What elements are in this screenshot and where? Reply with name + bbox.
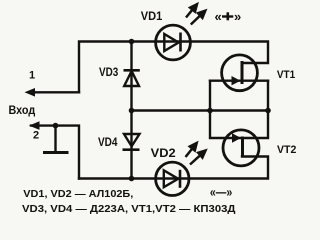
svg-text:VT1: VT1 <box>277 69 295 81</box>
svg-text:VD1: VD1 <box>141 9 163 23</box>
svg-text:VD2: VD2 <box>151 146 176 160</box>
LED VD2 emission arrows <box>186 143 206 165</box>
svg-text:VD4: VD4 <box>98 135 118 149</box>
wire middle rail <box>132 109 269 111</box>
wire terminal 1 lead <box>30 91 79 93</box>
wire VT1 gate-source line <box>210 79 268 81</box>
svg-text:VD3: VD3 <box>99 65 119 79</box>
wire right vertical VT1 source to VT2 drain <box>243 81 268 138</box>
wire gate riser <box>210 81 240 138</box>
transistor VT2 <box>223 130 259 166</box>
ground chassis bar <box>43 151 69 154</box>
svg-text:VT2: VT2 <box>277 144 296 156</box>
svg-text:VD3, VD4 — Д223А, VT1,VT2 — КП: VD3, VD4 — Д223А, VT1,VT2 — КП303Д <box>22 203 236 215</box>
svg-text:«—»: «—» <box>210 185 232 200</box>
transistor VT1 <box>222 55 258 91</box>
wire VD4 branch <box>130 111 132 179</box>
svg-text:«: « <box>215 9 222 24</box>
diode VD3 <box>124 70 140 86</box>
svg-text:1: 1 <box>29 69 35 81</box>
node B middle rail left junction <box>129 108 135 114</box>
wire VD3 branch <box>130 42 132 111</box>
terminal 1 arrow <box>25 88 36 97</box>
svg-text:Вход: Вход <box>9 105 36 117</box>
node A top rail junction <box>129 39 135 45</box>
node D middle rail right junction <box>265 108 271 114</box>
node F chassis junction <box>53 123 59 129</box>
wire chassis stub <box>54 126 56 152</box>
wire top rail <box>79 42 268 93</box>
LED VD1 <box>156 25 191 60</box>
terminal 2 arrow <box>29 121 40 130</box>
node C gate riser junction <box>207 108 213 114</box>
LED VD2 <box>156 162 189 195</box>
svg-text:2: 2 <box>33 130 39 142</box>
svg-text:VD1, VD2 — АЛ102Б,: VD1, VD2 — АЛ102Б, <box>23 188 133 200</box>
LED VD1 emission arrows <box>186 4 205 24</box>
svg-text:»: » <box>234 9 241 24</box>
diode VD4 <box>123 134 140 150</box>
wire terminal 2 lead <box>31 126 79 179</box>
node E bottom rail junction <box>129 176 135 182</box>
wire bottom rail <box>79 157 268 179</box>
